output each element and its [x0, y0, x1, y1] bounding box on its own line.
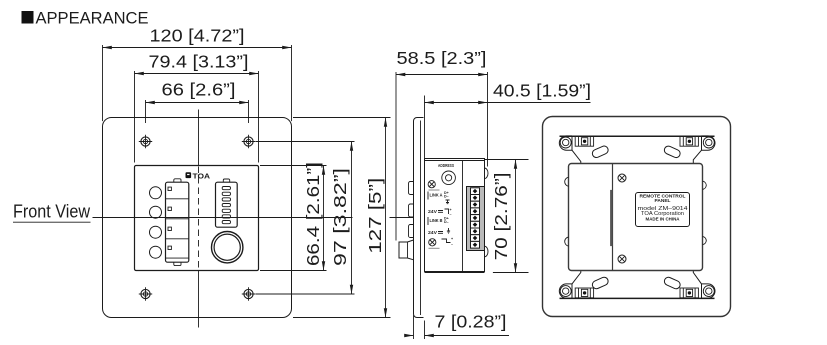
rear frame screw window bottom-left — [575, 288, 593, 298]
svg-text:58.5 [2.3”]: 58.5 [2.3”] — [397, 48, 487, 68]
rear box bump right lower — [703, 236, 707, 244]
rear label — [636, 193, 690, 227]
rear box bump left lower — [565, 237, 569, 246]
rear frame oval bottom-left — [591, 276, 609, 290]
side knob — [399, 240, 414, 260]
svg-text:LINK B: LINK B — [430, 218, 443, 223]
rear central box — [569, 164, 703, 271]
rear box screw top — [618, 174, 626, 182]
svg-text:7 [0.28”]: 7 [0.28”] — [435, 312, 507, 332]
inner module panel — [135, 166, 259, 271]
svg-text:PANEL: PANEL — [655, 198, 671, 204]
screw hole top-left — [139, 135, 152, 148]
svg-text:24V: 24V — [428, 209, 437, 214]
svg-text:66 [2.6”]: 66 [2.6”] — [162, 80, 236, 100]
svg-text:40.5 [1.59”]: 40.5 [1.59”] — [493, 81, 591, 101]
side body — [425, 159, 485, 273]
svg-text:D–: D– — [444, 220, 449, 224]
svg-text:79.4 [3.13”]: 79.4 [3.13”] — [149, 52, 249, 72]
side body mounting bumps right — [485, 168, 489, 257]
svg-text:66.4 [2.61”]: 66.4 [2.61”] — [303, 162, 323, 266]
rear box screw bottom — [618, 255, 626, 263]
TOA logo — [186, 172, 211, 181]
svg-text:TOA: TOA — [193, 172, 211, 181]
rear frame screw window top-left — [575, 136, 593, 146]
volume knob — [212, 232, 243, 263]
rear frame oval top-right — [663, 145, 681, 159]
button label strip — [166, 179, 189, 266]
button 3 — [150, 226, 162, 238]
svg-text:LINK A: LINK A — [430, 192, 443, 197]
side screw bottom — [429, 239, 440, 249]
svg-text:ADDRESS: ADDRESS — [438, 163, 454, 168]
terminal labels — [428, 191, 453, 246]
button 1 — [150, 187, 162, 199]
rear frame top edge — [560, 135, 715, 137]
rear plate — [543, 117, 731, 317]
dimension 66.4 [2.61"] right — [260, 162, 327, 271]
rear frame oval bottom-right — [663, 276, 681, 290]
svg-text:–: – — [451, 242, 453, 246]
dimension 40.5 [1.59"] — [425, 81, 592, 159]
side button bumps — [409, 182, 414, 238]
svg-text:70 [2.76”]: 70 [2.76”] — [491, 172, 511, 260]
rear frame tab top-left — [559, 136, 581, 164]
svg-text:24V: 24V — [428, 230, 437, 235]
rear box bump left upper — [565, 177, 569, 186]
button 4 — [150, 246, 162, 258]
side screw top — [428, 181, 439, 190]
svg-text:97 [3.82”]: 97 [3.82”] — [330, 168, 350, 266]
rear box hinge bar — [610, 190, 612, 246]
LED indicator strip — [216, 179, 238, 227]
svg-text:MADE IN CHINA: MADE IN CHINA — [646, 216, 680, 221]
rear box bump right upper — [703, 181, 707, 189]
svg-text:APPEARANCE: APPEARANCE — [36, 10, 149, 28]
front plate — [103, 118, 292, 318]
rear frame screw window top-right — [680, 136, 698, 146]
svg-text:Front View: Front View — [13, 202, 91, 222]
dimension 97 [3.82"] right — [256, 142, 355, 295]
button 2 — [150, 206, 162, 218]
terminal block — [467, 187, 485, 251]
dimension 66 [2.6"] — [146, 80, 249, 124]
svg-text:–: – — [450, 212, 452, 216]
dimension 127 [5"] right — [293, 118, 391, 318]
svg-text:D–: D– — [444, 195, 449, 199]
side faceplate — [414, 118, 424, 318]
rear frame screw window bottom-right — [680, 288, 698, 298]
ADDRESS dial — [438, 163, 455, 185]
svg-text:120 [4.72”]: 120 [4.72”] — [150, 26, 245, 46]
rear frame tab bottom-left — [559, 271, 581, 299]
dimension 120 [4.72"] — [103, 26, 292, 122]
vertical centerline — [198, 110, 200, 328]
rear frame oval top-left — [591, 145, 609, 159]
svg-text:127 [5”]: 127 [5”] — [365, 178, 385, 254]
rear frame tab top-right — [693, 136, 715, 164]
screw hole bottom-right — [242, 287, 255, 300]
dimension 58.5 [2.3"] — [396, 48, 488, 241]
dimension 7 [0.28"] — [406, 312, 510, 339]
dimension 79.4 [3.13"] — [135, 52, 259, 163]
label Front View — [13, 202, 91, 223]
rear frame bottom edge — [560, 297, 715, 299]
side centerline segment — [390, 217, 414, 219]
rear frame tab bottom-right — [693, 271, 715, 299]
screw hole bottom-left — [139, 287, 152, 300]
horizontal centerline — [93, 217, 353, 219]
title APPEARANCE — [22, 10, 149, 28]
dimension 70 [2.76"] — [485, 160, 529, 273]
svg-text:+: + — [451, 237, 453, 241]
screw hole top-right — [242, 135, 255, 148]
